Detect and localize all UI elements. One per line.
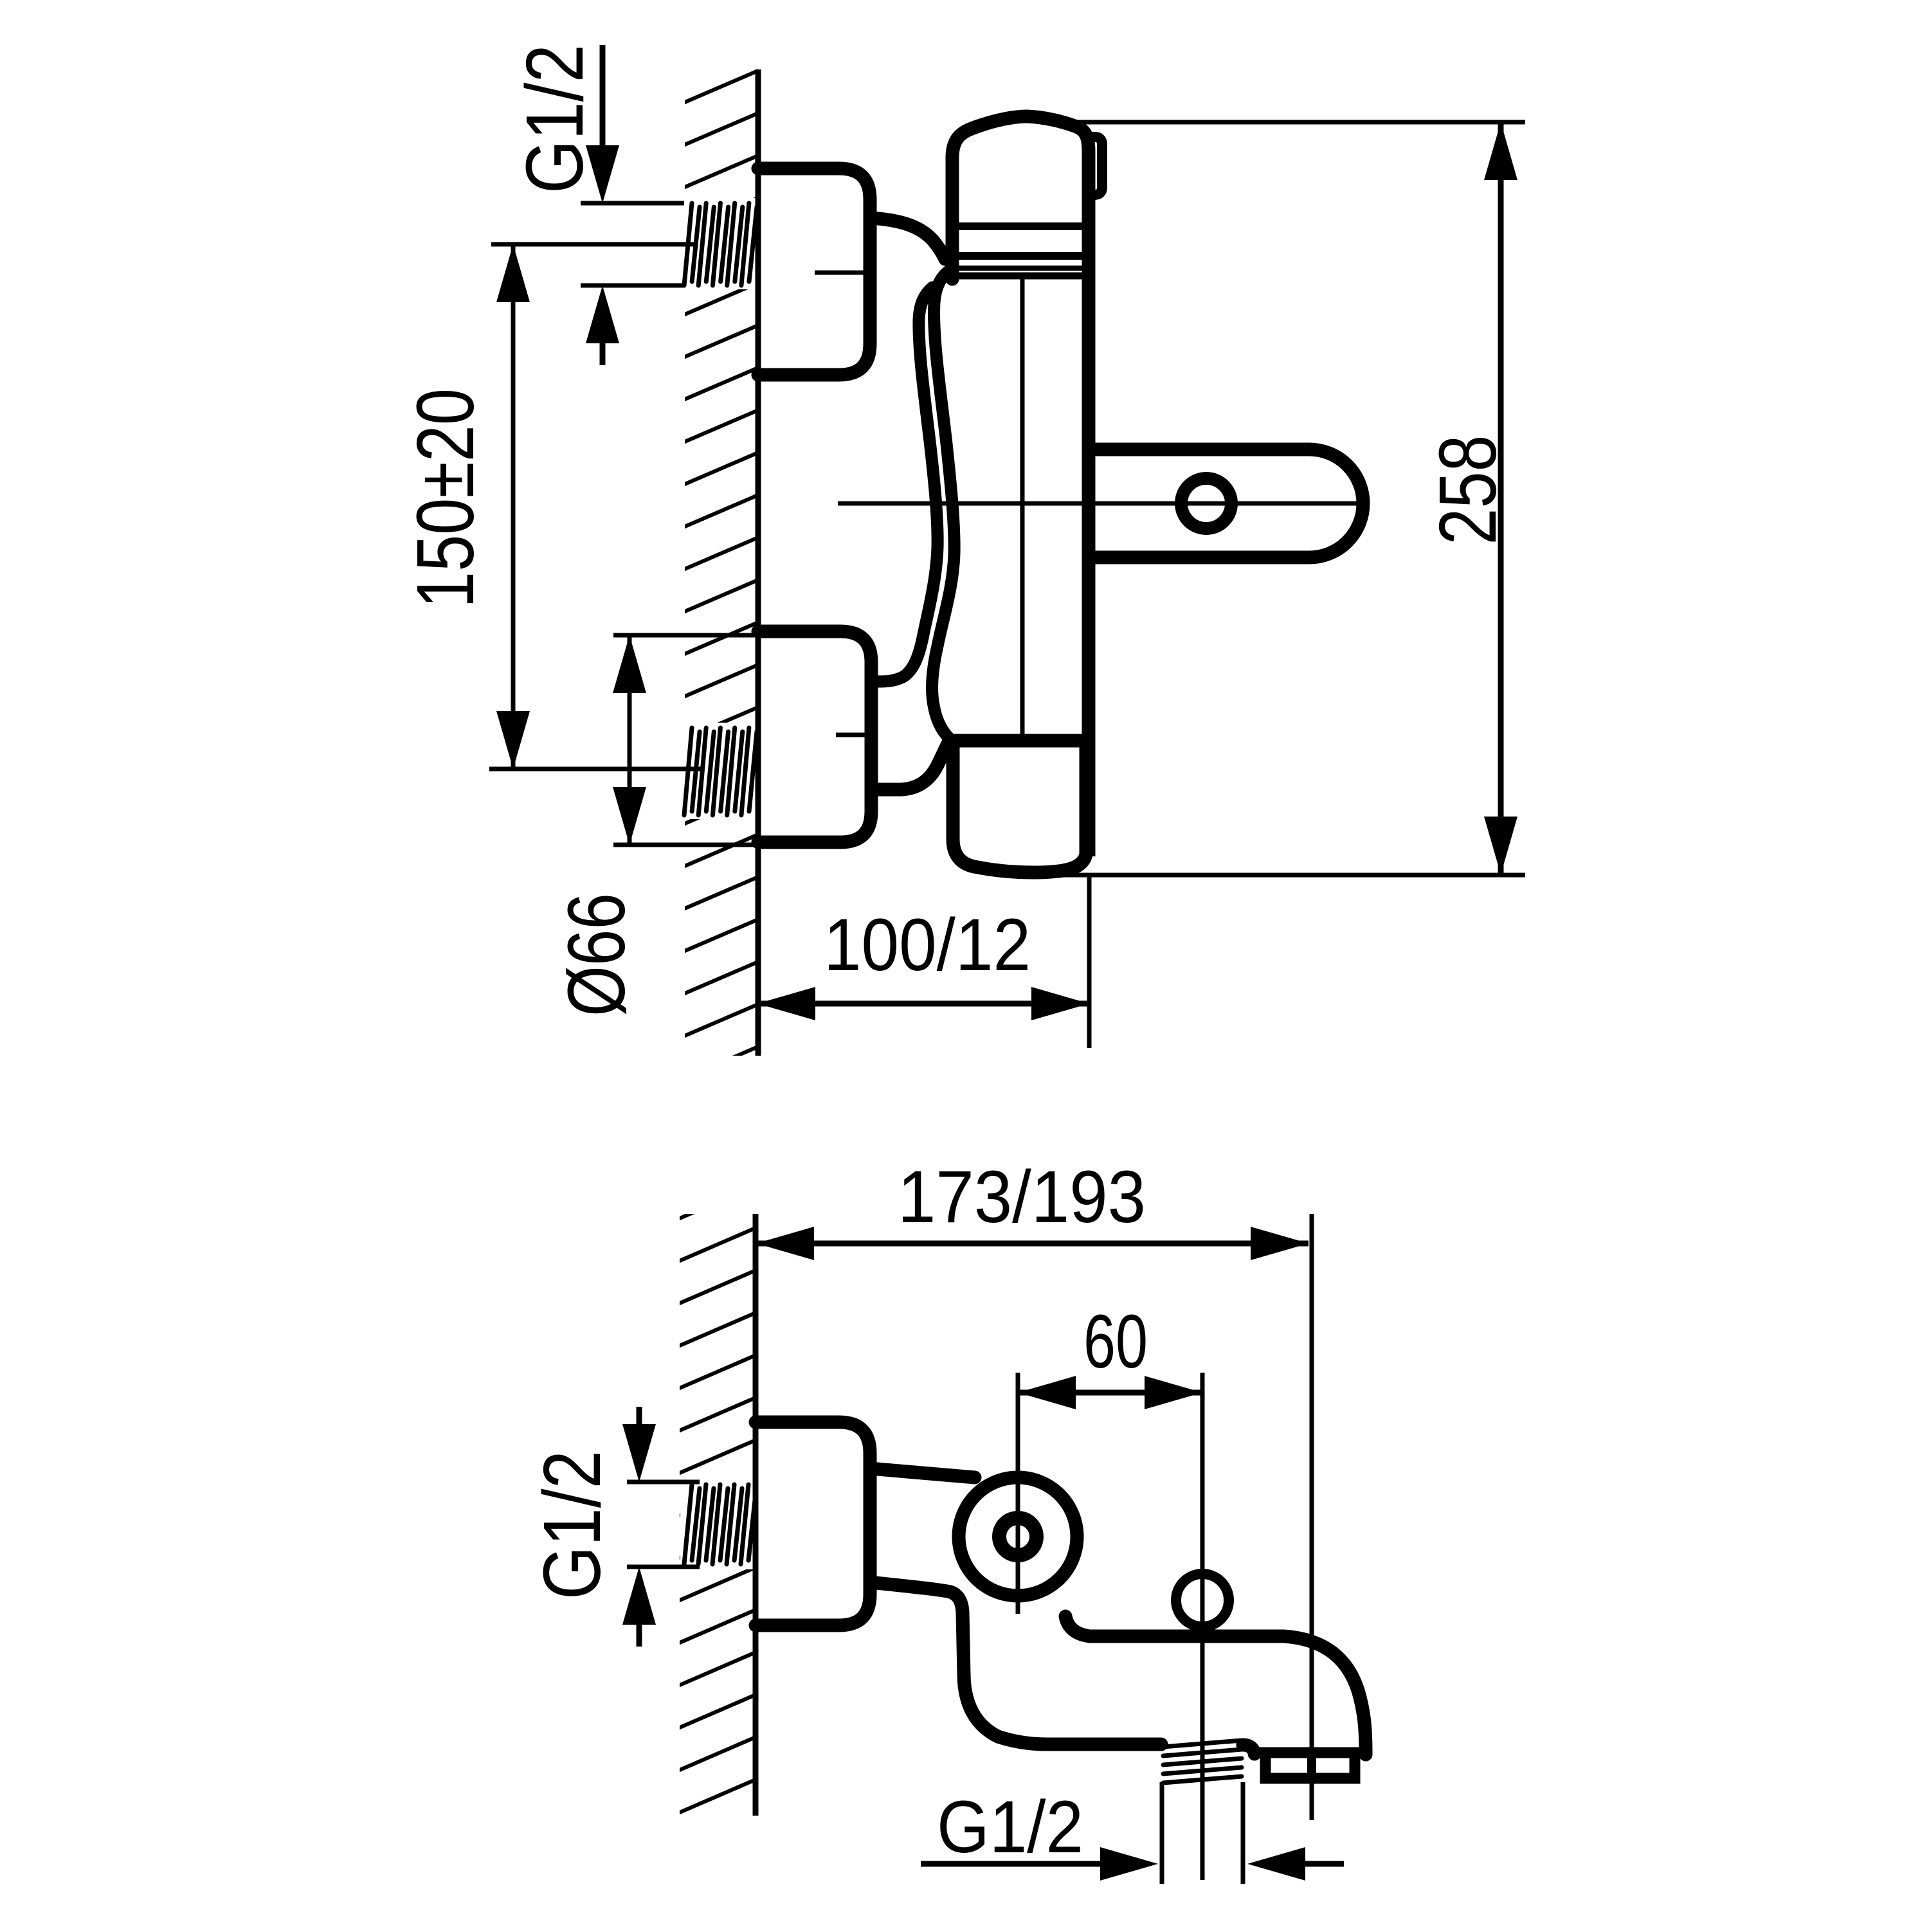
dim G1/2 bottom: leader line [921,1861,1103,1867]
wall face line (bottom view) [753,1214,759,1816]
dim 150±20: line [511,244,516,769]
dim 60: left arrowhead [1018,1376,1076,1409]
dim G1/2 bottom: left-pointing arrowhead [1247,1847,1305,1881]
dim G1/2 bottom: right tail [1305,1861,1344,1867]
spout bottom step to aerator [1243,1745,1254,1754]
dim Ø66: extension lower [613,843,756,847]
wall face line (top view) [756,69,761,1056]
dim G1/2 left: lower extension [627,1565,700,1569]
dim 258: top arrowhead [1484,122,1517,180]
outlet block left/bottom (top view) [953,745,1086,872]
dim G1/2 top: small up arrowhead [586,285,619,343]
lever horizontal centerline [838,501,1358,506]
dim 150±20: extension lower [489,767,701,772]
dim G1/2 left: down arrowhead [622,1424,656,1482]
spout top edge (bottom view) [1065,1616,1366,1755]
arm bottom edge merging into spout left/bottom (bottom view) [870,1582,1161,1744]
body vertical centerline [1020,279,1025,741]
dim G1/2 top: leader line [600,45,606,149]
white backing for thread in wall (bottom view) [680,1479,757,1569]
arm top edge (bottom view) [870,1468,975,1477]
dim G1/2 left: lower tail [637,1622,642,1647]
dim 60: left extension line [1016,1373,1020,1614]
svg-text:G1/2: G1/2 [937,1786,1083,1868]
svg-text:G1/2: G1/2 [509,44,600,194]
knob bottom / body top edge [952,273,1089,280]
dim G1/2 left: upper extension [627,1480,700,1485]
svg-text:150±20: 150±20 [400,388,491,608]
svg-text:Ø66: Ø66 [551,893,642,1016]
dim 258: bottom extension line [1065,873,1525,878]
dim 258: bottom arrowhead [1484,817,1517,874]
thermostat knob (top view) [952,116,1089,279]
knob band line 1 [952,222,1089,230]
body S-curve left [871,287,937,682]
body neck upper edge [870,218,945,259]
lower escutcheon (top view) [758,631,871,842]
aerator block [1265,1756,1355,1778]
lower inlet thread G1/2 (top view) [684,728,692,815]
lever hole [1181,478,1231,528]
dim 173/193: right arrowhead [1251,1227,1309,1260]
inlet thread G1/2 (bottom view) [684,1485,692,1564]
dim 60: line [1018,1390,1202,1396]
dim 100/12: right extension line [1087,874,1092,1048]
white backing for threads in wall [680,198,757,289]
svg-text:173/193: 173/193 [898,1156,1146,1238]
knob band line 2 [952,252,1089,260]
dim G1/2 top: extension line lower [581,284,684,288]
dim 173/193: left arrowhead [756,1227,814,1260]
lower escutcheon center leader [836,733,869,737]
aerator divider [1307,1749,1316,1781]
dim 60: right arrowhead [1145,1376,1202,1409]
dim 173/193: right extension line [1310,1214,1314,1820]
svg-text:100/12: 100/12 [824,904,1031,986]
pivot joint outer circle [959,1477,1077,1596]
handle lever (top view) [1089,449,1363,557]
svg-text:G1/2: G1/2 [527,1450,617,1600]
dim 258: line [1498,122,1504,874]
knob band line 3 [952,266,1089,271]
body neck lower edge [871,740,950,790]
dim 100/12: left arrowhead [757,987,815,1020]
dim G1/2 top: extension line upper [581,201,684,206]
dim G1/2 top: small arrow tail [600,341,606,365]
svg-text:60: 60 [1083,1299,1148,1384]
spout outlet thread G1/2 (bottom view) [1163,1740,1242,1747]
upper inlet thread G1/2 (top view) [684,203,692,285]
body S-curve right [932,269,955,738]
dim 100/12: right arrowhead [1031,987,1089,1020]
dim Ø66: bottom arrowhead [613,787,646,845]
dim G1/2 bottom: left extension line [1160,1782,1164,1884]
dim G1/2 top: down arrowhead [586,145,619,203]
dim 60: right extension/centerline [1200,1373,1205,1880]
diverter knob circle [1176,1574,1229,1627]
dim 100/12: line [757,1001,1089,1007]
escutcheon (bottom view) [756,1422,870,1625]
pivot joint inner circle [999,1518,1037,1555]
dim G1/2 left (bottom view): upper tail [637,1407,642,1426]
dim 258: top extension line [1061,120,1525,125]
dim 150±20: top arrowhead [496,244,530,302]
dim Ø66: line [628,635,632,845]
svg-text:258: 258 [1422,435,1513,545]
dim G1/2 bottom: right extension line [1241,1782,1245,1884]
knob side tab [1089,137,1102,195]
outlet block top edge (top view) [951,741,1088,751]
dim 150±20: bottom arrowhead [496,711,530,769]
diverter knob stem left [1190,1627,1197,1639]
dim G1/2 left: up arrowhead [622,1567,656,1625]
dim 173/193: line [756,1241,1309,1247]
dim Ø66: extension upper [613,633,756,638]
dim G1/2 bottom: right-pointing arrowhead [1100,1847,1158,1881]
dim 150±20: extension upper [491,242,698,247]
body right edge [1082,276,1096,856]
dim Ø66: top arrowhead [613,635,646,693]
diverter knob stem right [1208,1627,1215,1639]
aerator top lip [1251,1747,1364,1758]
upper escutcheon center leader [815,271,865,275]
upper escutcheon (top view) [758,168,870,375]
